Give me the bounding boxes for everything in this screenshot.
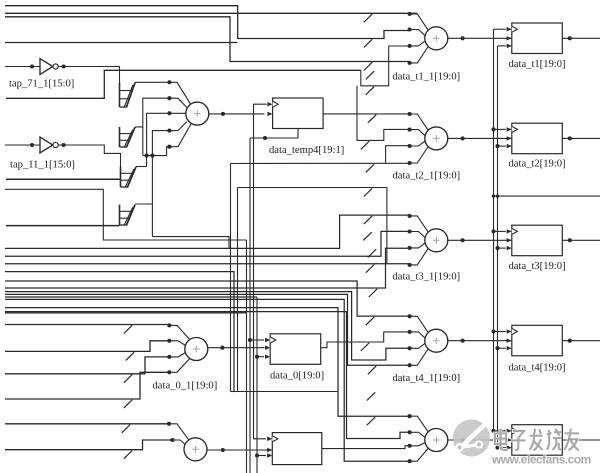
- node adder data_t3_1 in4: [408, 263, 412, 267]
- node clk tap row3: [491, 229, 495, 233]
- wire en top corner: [498, 45, 506, 47]
- watermark char 5: [565, 429, 579, 451]
- wire d1 diag2: [173, 440, 186, 445]
- node inverter1 output junction: [62, 64, 66, 68]
- svg-text:data_temp4[19:1]: data_temp4[19:1]: [269, 145, 344, 156]
- node inverter2 output junction: [62, 143, 66, 147]
- node data_1 en tap: [255, 453, 259, 457]
- wire diag data_t5_1 in1: [410, 416, 429, 432]
- wire reg data_t4_1 output: [562, 340, 600, 342]
- node junction x146: [145, 154, 149, 158]
- wire net clock source: [494, 195, 600, 197]
- register data_t4[19:0]: [512, 325, 563, 356]
- wire ripper4 out: [135, 203, 152, 205]
- arrow reg clk data_t2_1: [507, 127, 512, 131]
- node clk line tap: [492, 194, 495, 197]
- svg-text:data_t3[19:0]: data_t3[19:0]: [509, 261, 566, 272]
- wire tap11 bus to ripper3: [6, 178, 121, 180]
- wire reg data_t1_1 output: [562, 37, 600, 39]
- node clk tap row5: [491, 429, 495, 433]
- node clk tap row4: [491, 329, 495, 333]
- node data_0_1 out: [220, 346, 224, 350]
- wire data_1 en stub: [257, 455, 266, 457]
- svg-text:tap_71_1[15:0]: tap_71_1[15:0]: [9, 79, 74, 90]
- register data_temp4: [273, 98, 324, 129]
- node data_0 clk tap: [248, 338, 252, 342]
- svg-text:data_t4[19:0]: data_t4[19:0]: [509, 362, 566, 373]
- bus ripper B4: [119, 205, 121, 226]
- wire row2 in3 in4 feed: [231, 162, 410, 164]
- wire diag data_t2_1 in1: [410, 114, 429, 130]
- svg-text:data_t2[19:0]: data_t2[19:0]: [509, 159, 566, 170]
- wire diag data_t4_1 in4: [410, 349, 429, 366]
- arrow reg clk data_t1_1: [507, 27, 512, 31]
- arrow data_0 data: [265, 346, 270, 350]
- node adder data_t1_1 in2: [408, 27, 412, 31]
- arrow reg data data_t2_1: [507, 136, 512, 140]
- node adder data_t3_1 in2: [408, 229, 412, 233]
- arrow reg en data_t1_1: [507, 44, 512, 48]
- wire x338 riser: [337, 391, 340, 393]
- wire data_0 out to row4 in2: [321, 332, 410, 348]
- node junction x152: [150, 154, 154, 158]
- node adder data_t5_1 in3: [408, 444, 412, 448]
- wire diag data_t2_1 in2: [410, 130, 426, 136]
- op-amp adder data_0_1: [185, 338, 208, 361]
- wire diag data_t1_1 in4: [410, 46, 429, 63]
- wire branch to adder t2 in2: [357, 86, 410, 141]
- wire data0 in4 line: [5, 372, 169, 399]
- wire clk tap row5: [494, 430, 506, 432]
- wire vertical x253 clk data_1: [254, 105, 267, 439]
- node adder data_t4_1 in1: [408, 314, 412, 318]
- wire inverter1 output to ripper1: [58, 67, 119, 83]
- wire ripper1 out to left adder in1: [135, 81, 169, 83]
- node adder data_t5_1 in4: [408, 459, 412, 463]
- wire cluster to row4 in3: [5, 292, 410, 360]
- wire y187 line: [238, 188, 387, 264]
- wire cluster to row4 in1: [5, 281, 410, 316]
- wire riser x142 down: [142, 127, 144, 156]
- op-amp adder data_1_1: [184, 438, 207, 461]
- wire cluster to row5 in2: [5, 312, 410, 439]
- node adder data_t2_1 in2: [408, 128, 412, 132]
- watermark char 3: [530, 429, 543, 451]
- wire adder data_t2_1 out: [448, 137, 512, 139]
- node data_0_1 in2: [167, 339, 171, 343]
- arrow reg en data_t4_1: [507, 346, 512, 350]
- arrow data_1 clk: [267, 437, 272, 441]
- node clk tap row2: [491, 127, 495, 131]
- wire cluster to row5 in4: [5, 299, 410, 461]
- wire diag data_t1_1 in1: [410, 14, 429, 30]
- wire clk tap row4: [494, 331, 506, 333]
- wire diag in1: [169, 82, 190, 104]
- wire d01 diag3: [169, 353, 185, 357]
- node data_t3_1 out: [461, 238, 465, 242]
- wire net w1 feed: [5, 189, 247, 240]
- wire inverter1 input: [5, 66, 40, 68]
- node adder data_t2_1 in1: [408, 112, 412, 116]
- wire diag data_t3_1 in2: [410, 232, 426, 238]
- node adder data_t3_1 in3: [408, 246, 412, 250]
- wire data_0 en stub: [257, 356, 264, 358]
- node adder data_t1_1 in1: [408, 12, 412, 16]
- arrow reg clk data_t4_1: [507, 329, 512, 333]
- svg-text:www.elecfans.com: www.elecfans.com: [491, 453, 591, 467]
- arrow data_1 en: [267, 453, 272, 457]
- arrow data_temp4 clk: [267, 102, 272, 106]
- wire diag data_t5_1 in4: [410, 448, 429, 461]
- wire adder data_t1_1 out: [448, 37, 512, 39]
- arrow reg en data_t3_1: [507, 246, 512, 250]
- wire vertical x237: [237, 188, 239, 392]
- node inverter1 input junction: [30, 64, 34, 68]
- wire reg data_t2_1 output: [562, 137, 600, 139]
- register data_t1[19:0]: [512, 23, 563, 54]
- wire cluster to row4 in4: [5, 294, 410, 365]
- svg-text:data_0[19:0]: data_0[19:0]: [270, 371, 324, 382]
- node left adder out: [221, 112, 225, 116]
- wire clk top corner: [494, 28, 506, 30]
- svg-text:data_t3_1[19:0]: data_t3_1[19:0]: [393, 272, 461, 283]
- node en line tap: [496, 194, 499, 197]
- op-amp adder data_t4_1: [425, 329, 448, 352]
- node data_0_1 in3: [167, 355, 171, 359]
- wire d1 diag1: [169, 424, 189, 440]
- node data_t2_1 out: [461, 136, 465, 140]
- wire diag data_t2_1 in3: [410, 141, 426, 146]
- wire bus to ripper4: [6, 225, 120, 227]
- node inverter2 input junction: [30, 143, 34, 147]
- node data_t5_1 out: [461, 438, 465, 442]
- wire diag data_t5_1 in2: [410, 432, 426, 437]
- wire adder data_t4_1 out: [448, 340, 512, 342]
- arrow reg data data_t5_1: [507, 438, 512, 442]
- wire inverter2 output jog to ripper3: [58, 145, 120, 167]
- wire diag in5: [169, 124, 191, 147]
- node data_1 in1: [167, 422, 171, 426]
- node left adder in1: [167, 80, 171, 84]
- wire clk tap row2: [494, 128, 506, 130]
- wire en tap row5: [498, 447, 506, 449]
- wire clk tap row3: [494, 230, 506, 232]
- wire diag data_t5_1 in3: [410, 443, 426, 446]
- wire row2 in3 riser: [386, 146, 410, 164]
- wire vertical x257 en: [256, 297, 258, 473]
- node en tap row5: [495, 446, 499, 450]
- watermark logo: [453, 419, 490, 456]
- svg-text:data_t2_1[19:0]: data_t2_1[19:0]: [393, 171, 461, 182]
- wire data_1 adder out: [207, 449, 272, 451]
- arrow data_0 clk: [265, 338, 270, 342]
- arrow data_1 data: [267, 448, 272, 452]
- bus ripper B2: [119, 127, 121, 147]
- wire diag in2: [169, 98, 186, 107]
- wire diag data_t1_1 in2: [410, 30, 426, 36]
- wire cluster to en bundle: [5, 296, 257, 298]
- wire diag data_t3_1 in3: [410, 243, 426, 248]
- node adder data_t5_1 in2: [408, 430, 412, 434]
- wire data1 in2 line: [5, 440, 173, 450]
- node data_t4_1 out: [461, 339, 465, 343]
- wire diag data_t4_1 in3: [410, 343, 426, 348]
- svg-text:data_0_1[19:0]: data_0_1[19:0]: [153, 381, 218, 392]
- wire reg data_t5_1 output: [562, 439, 600, 441]
- node adder data_t5_1 in1: [408, 414, 412, 418]
- node reg data_t5_1 out: [568, 438, 572, 442]
- wire stub y42: [5, 42, 238, 44]
- wire cluster to data1 bus a: [5, 272, 234, 392]
- wire adder data_t3_1 out: [448, 239, 512, 241]
- register data_1: [272, 433, 322, 465]
- wire data_temp4 output to adder t2 in1: [323, 113, 410, 115]
- wire data0 in1 line: [5, 324, 169, 326]
- wire adder data_t5_1 out: [448, 439, 512, 441]
- wire en tap row2: [498, 145, 506, 147]
- wire stub 312: [5, 312, 247, 314]
- node data_0_1 in4: [167, 370, 171, 374]
- node adder data_t1_1 in4: [408, 61, 412, 65]
- wire data_1 out to adder5 in3: [322, 446, 410, 449]
- wire data_0 clk stub: [250, 339, 264, 341]
- svg-text:data_t1_1[19:0]: data_t1_1[19:0]: [393, 72, 461, 83]
- register: [512, 425, 563, 456]
- wire d01 diag2: [169, 341, 185, 346]
- wire data_temp4 en bottom entry: [250, 129, 298, 139]
- op-amp adder data_t5_1: [425, 429, 448, 452]
- node en tap row2: [495, 144, 499, 148]
- node adder data_t4_1 in2: [408, 330, 412, 334]
- wire diag data_t2_1 in4: [410, 147, 429, 164]
- node reg data_t4_1 out: [568, 339, 572, 343]
- watermark char 2: [511, 431, 525, 450]
- node en data_0 tap: [255, 355, 259, 359]
- arrow data_0 en: [265, 355, 270, 359]
- wire net to adder t1 in2 (step): [5, 6, 410, 39]
- wire diag data_t3_1 in4: [410, 248, 429, 265]
- node en junction: [263, 136, 267, 140]
- node adder data_t3_1 in1: [408, 214, 412, 218]
- wire d01 diag1: [169, 325, 189, 339]
- wire cluster to row5 in1: [5, 308, 410, 417]
- node left adder in2: [167, 96, 171, 100]
- wire vertical x230: [230, 164, 232, 392]
- wire data_temp4 clk feed: [254, 103, 267, 106]
- node adder data_t2_1 in4: [408, 161, 412, 165]
- node en tap row3: [495, 246, 499, 250]
- arrow reg en data_t5_1: [507, 445, 512, 449]
- wire data1 in1 line: [5, 423, 169, 425]
- node data_0_1 in1: [167, 323, 171, 327]
- wire d01 diag4: [169, 359, 189, 373]
- op-amp adder data_t2_1: [425, 127, 448, 150]
- wire net tap into adder t1 in1: [5, 12, 417, 14]
- svg-text:tap_11_1[15:0]: tap_11_1[15:0]: [10, 160, 75, 171]
- wire inverter2 input: [5, 144, 40, 146]
- wire tap71 bus under label: [6, 70, 361, 98]
- arrow reg en data_t2_1: [507, 144, 512, 148]
- wire ripper2 out via riser: [135, 98, 169, 127]
- node data_1 in2: [170, 438, 174, 442]
- wire data_0_1 out: [208, 347, 265, 349]
- wire riser r3 to in3: [147, 113, 186, 166]
- wire data0 in3 line: [5, 357, 169, 374]
- wire r4 route down: [152, 237, 229, 249]
- arrow reg clk data_t3_1: [507, 229, 512, 233]
- node left adder in3: [167, 111, 171, 115]
- watermark char 1: [495, 429, 508, 450]
- arrow reg clk data_t5_1: [507, 429, 512, 433]
- arrow data_temp4 data: [267, 112, 272, 116]
- arrow reg data data_t4_1: [507, 339, 512, 343]
- node adder data_t4_1 in4: [408, 363, 412, 367]
- wire reg data_t3_1 output: [562, 239, 600, 241]
- wire cluster to row3 in4: [5, 263, 410, 265]
- op-amp adder data_t1_1: [425, 27, 448, 50]
- wire diag data_t3_1 in1: [410, 216, 429, 232]
- wire step to adder t1 in3: [361, 46, 410, 86]
- node adder data_t1_1 in3: [408, 44, 412, 48]
- wire diag data_t1_1 in3: [410, 41, 426, 46]
- node reg data_t1_1 out: [568, 36, 572, 40]
- wire clk bus vertical: [493, 29, 495, 431]
- watermark char 4: [547, 429, 562, 450]
- wire data0 in2 line: [5, 341, 169, 352]
- arrow reg data data_t1_1: [507, 36, 512, 40]
- bus ripper B3: [120, 167, 122, 188]
- wire en bus vertical: [497, 46, 499, 447]
- wire vertical x250 clk data_0: [249, 138, 251, 473]
- wire diag in4: [169, 122, 187, 131]
- wire riser r4: [152, 131, 169, 237]
- wire data1 feed line: [234, 391, 338, 393]
- node adder data_t4_1 in3: [408, 346, 412, 350]
- node data_1 adder out: [221, 448, 225, 452]
- inverter U1 tap_71: [40, 59, 53, 75]
- wire en tap row3: [498, 247, 506, 249]
- wire en tap row4: [498, 347, 506, 349]
- op-amp adder data_t3_1: [425, 229, 448, 252]
- node en tap row4: [495, 346, 499, 350]
- register data_t3[19:0]: [512, 225, 563, 256]
- bus ripper B1: [119, 82, 121, 107]
- wire cluster to row3 in1: [5, 215, 410, 248]
- wire diag data_t4_1 in2: [410, 332, 426, 338]
- svg-text:data_t1[19:0]: data_t1[19:0]: [509, 59, 566, 70]
- wire vertical x246: [246, 240, 248, 473]
- register data_0: [270, 334, 321, 365]
- node reg data_t3_1 out: [568, 238, 572, 242]
- node data_t1_1 out: [461, 36, 465, 40]
- node reg data_t2_1 out: [568, 136, 572, 140]
- wire cluster to row3 in2: [5, 231, 410, 256]
- wire net to adder t1 in4 (step): [5, 17, 410, 62]
- wire ripper3 out: [136, 166, 147, 168]
- wire join x230 to bus: [231, 391, 235, 393]
- node adder data_t2_1 in3: [408, 144, 412, 148]
- wire inv2 feed line: [143, 147, 170, 156]
- inverter U2 tap_11: [40, 137, 53, 153]
- node left adder in4: [167, 129, 171, 133]
- wire diag data_t4_1 in1: [410, 316, 429, 332]
- svg-text:data_t4_1[19:0]: data_t4_1[19:0]: [393, 373, 461, 384]
- wire cluster to row3 in3: [5, 248, 410, 288]
- op-amp adder A1 data_temp4: [186, 102, 209, 125]
- register data_t2[19:0]: [512, 123, 563, 154]
- arrow reg data data_t3_1: [507, 238, 512, 242]
- wire left adder output: [209, 113, 265, 115]
- node left adder in5: [167, 145, 171, 149]
